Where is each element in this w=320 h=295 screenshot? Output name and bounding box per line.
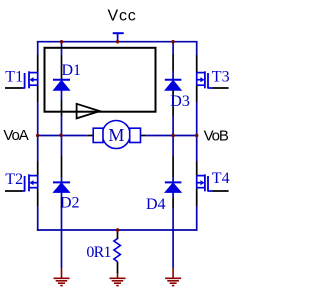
transistor T4 xyxy=(197,174,229,191)
transistor T1 xyxy=(5,71,38,88)
wire node VoA xyxy=(38,135,88,137)
svg-text:Vcc: Vcc xyxy=(108,8,137,25)
junction dot top rail D3 column xyxy=(171,40,174,43)
resistor R1 zigzag xyxy=(114,239,121,262)
node column D3/D4 vertical segments xyxy=(172,42,174,268)
resistor R1 lead bottom xyxy=(117,262,119,274)
junction dot resistor top xyxy=(116,228,119,231)
svg-text:D4: D4 xyxy=(146,196,166,213)
buffer amplifier symbol inside U1 xyxy=(77,104,100,119)
junction dot VoB D3 column xyxy=(171,134,174,137)
diode D4 xyxy=(165,182,182,192)
ground under D4 column xyxy=(165,268,181,286)
diode D2 xyxy=(53,182,70,192)
svg-text:T1: T1 xyxy=(5,68,23,85)
ground under resistor R1 xyxy=(110,274,126,286)
svg-text:T4: T4 xyxy=(212,170,230,187)
svg-text:M: M xyxy=(108,125,124,145)
motor right pin xyxy=(141,135,147,137)
junction dot VoA D1 column xyxy=(59,134,62,137)
junction dot VoA rail xyxy=(36,134,39,137)
diode D1 xyxy=(53,80,70,91)
junction dot VoB rail xyxy=(195,134,198,137)
transistor T2 xyxy=(5,174,38,191)
ground under D2 column xyxy=(54,268,70,286)
motor left terminal box xyxy=(93,128,103,142)
svg-text:D3: D3 xyxy=(170,93,190,110)
wire right rail segments xyxy=(196,42,198,231)
wire bottom rail xyxy=(37,229,198,231)
junction dot Vcc stem xyxy=(116,40,119,43)
svg-text:VoB: VoB xyxy=(204,127,229,144)
resistor R1 lead top xyxy=(117,230,119,239)
wire left rail segments xyxy=(37,42,39,231)
wire top rail xyxy=(37,41,198,43)
svg-text:0R1: 0R1 xyxy=(86,244,111,261)
svg-text:D1: D1 xyxy=(62,62,82,79)
junction dot top rail D1 column xyxy=(60,40,63,43)
motor M circle xyxy=(102,121,130,149)
svg-text:T3: T3 xyxy=(212,68,230,85)
component U1 driver block body xyxy=(45,48,156,112)
motor left pin xyxy=(88,135,94,137)
diode D3 xyxy=(165,80,182,91)
node column D1/D2 vertical segments xyxy=(61,42,63,268)
transistor T3 xyxy=(197,71,229,88)
power port Vcc bar xyxy=(113,33,124,42)
svg-text:VoA: VoA xyxy=(3,127,28,144)
wire node VoB xyxy=(146,135,197,137)
svg-text:T2: T2 xyxy=(5,171,23,188)
motor right terminal box xyxy=(130,128,141,142)
svg-text:D2: D2 xyxy=(60,195,80,212)
